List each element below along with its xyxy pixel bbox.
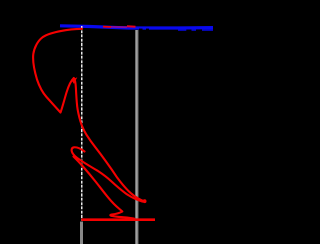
third descending strand (from hook to zigzag) <box>74 157 135 219</box>
blue nullcline (horizontal) <box>60 26 213 28</box>
gray vertical line (right, solid) <box>135 30 139 244</box>
arrow blob at trajectory end <box>143 199 147 203</box>
horizontal red line at bottom <box>81 218 155 221</box>
magenta blend segment on blue <box>111 26 127 28</box>
dashed vertical line white dashes <box>81 26 83 221</box>
hook (upper fold) and second descending strand <box>72 147 143 201</box>
red trajectory: big C-arc, spike and long descent <box>33 29 145 202</box>
gray bar below dashed line (left, bottom) <box>80 222 83 244</box>
dashed vertical line dark underlay (left) <box>81 26 83 221</box>
arrowhead on upstroke of spike <box>71 77 77 84</box>
red segment riding on blue (left of magenta blend) <box>103 26 111 28</box>
blue nullcline lower bulge segments <box>178 29 213 31</box>
black notches under blue line <box>139 29 149 31</box>
red segment riding on blue (meets gray line) <box>127 25 136 28</box>
